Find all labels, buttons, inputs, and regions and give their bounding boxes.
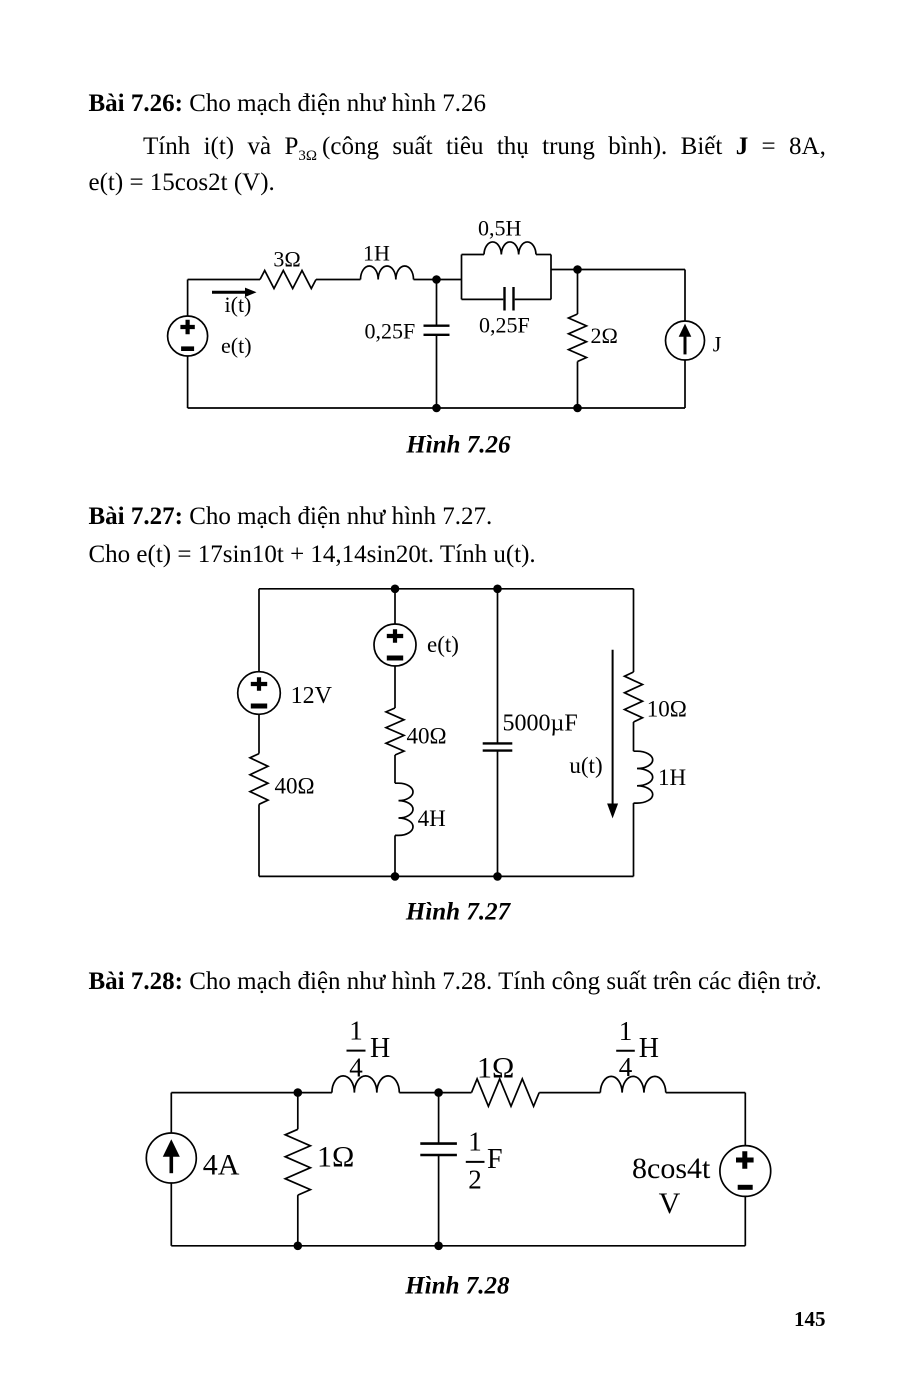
label 4A (203, 1149, 240, 1182)
wire node to e(t) source (394, 589, 396, 624)
label 1H 7.27 (658, 765, 686, 790)
label 8cos4t (632, 1152, 711, 1185)
resistor 10ohm (625, 672, 643, 722)
resistor 3ohm (260, 271, 316, 289)
svg-text:V: V (659, 1187, 681, 1220)
wire 1H to bottom right corner (633, 803, 635, 876)
label e(t) source 7.26 (221, 333, 252, 358)
wire inductor to node 2 (399, 1092, 438, 1094)
wire 2ohm resistor to bottom (577, 362, 579, 409)
resistor 40ohm middle (386, 708, 404, 755)
voltage source e(t) 7.27 (374, 624, 416, 666)
svg-text:0,25F: 0,25F (365, 319, 416, 344)
resistor 1ohm series (472, 1079, 540, 1106)
svg-text:1H: 1H (658, 765, 686, 790)
label 10 ohm (647, 697, 687, 722)
label 1 ohm series (477, 1052, 514, 1085)
wire top 7.27 (259, 588, 634, 590)
capacitor half F bottom lead (438, 1155, 440, 1246)
node 1 top 7.28 (294, 1088, 303, 1097)
resistor 2ohm (569, 314, 587, 362)
svg-text:e(t): e(t) (427, 632, 459, 657)
svg-text:1H: 1H (363, 241, 390, 266)
node bottom under 2ohm (573, 404, 582, 413)
wire left edge below 4A source (170, 1183, 172, 1246)
wire 1H inductor to node A (414, 279, 437, 281)
wire right edge below 8cos4t source (744, 1196, 746, 1245)
svg-text:0,5H: 0,5H (478, 216, 522, 241)
capacitor half F top lead (438, 1093, 440, 1144)
label 40 ohm middle (407, 723, 447, 748)
label 12V (291, 683, 333, 709)
svg-text:Hình 7.26: Hình 7.26 (405, 431, 511, 458)
svg-text:F: F (487, 1144, 503, 1175)
capacitor 0.25F bottom lead (436, 335, 438, 408)
svg-text:40Ω: 40Ω (407, 723, 447, 748)
node B junction dot (573, 265, 582, 274)
svg-text:1: 1 (349, 1016, 363, 1046)
label 0,25F box capacitor (479, 313, 530, 338)
svg-text:5000µF: 5000µF (503, 711, 578, 737)
arrow u(t) voltage reference (607, 650, 618, 819)
wire left 40ohm to bottom (258, 804, 260, 876)
label J (713, 332, 722, 357)
wire node B to resistor 2ohm (577, 270, 579, 315)
svg-text:J: J (713, 332, 722, 357)
wire bottom 7.27 (259, 875, 634, 877)
wire node A to parallel box (436, 279, 462, 281)
label e(t) 7.27 (427, 632, 459, 657)
capacitor 5000uF top lead (497, 589, 499, 744)
wire 40ohm mid to 4H inductor (394, 755, 396, 783)
node bottom under 1ohm shunt (294, 1242, 303, 1251)
wire quarter H right to top-right corner (666, 1092, 746, 1094)
current source 4A (146, 1133, 196, 1183)
svg-text:1Ω: 1Ω (477, 1052, 514, 1085)
wire right edge above 8cos4t source (744, 1093, 746, 1146)
label 40 ohm left (275, 774, 315, 799)
label 4H (418, 806, 446, 831)
label 2 ohm (591, 323, 618, 348)
inductor quarter H left (332, 1076, 399, 1093)
svg-text:H: H (639, 1033, 659, 1064)
node bottom under capacitor (432, 404, 441, 413)
svg-text:2Ω: 2Ω (591, 323, 618, 348)
node bottom under half F capacitor (434, 1242, 443, 1251)
parallel LC box bottom edge right part (515, 298, 551, 300)
voltage source 8cos4t (720, 1146, 771, 1197)
svg-text:i(t): i(t) (225, 292, 252, 317)
fraction 1/4 H label right (616, 1016, 659, 1082)
svg-text:1Ω: 1Ω (317, 1141, 354, 1174)
capacitor 0.25F plates (424, 326, 450, 335)
parallel LC box bottom edge left part (462, 298, 504, 300)
svg-text:4: 4 (619, 1052, 633, 1082)
current source J (666, 321, 705, 360)
caption Hinh 7.26 (405, 431, 511, 458)
svg-text:4A: 4A (203, 1149, 240, 1182)
svg-text:1: 1 (619, 1016, 633, 1046)
caption Hinh 7.27 (405, 899, 512, 926)
fraction 1/4 H label left (347, 1016, 391, 1083)
inductor 0,5H on box top edge (484, 242, 536, 255)
svg-text:Hình 7.27: Hình 7.27 (405, 899, 512, 926)
svg-text:2: 2 (468, 1164, 482, 1194)
label 3 ohm (273, 247, 300, 272)
resistor 1ohm shunt (285, 1093, 310, 1246)
capacitor 0.25F vertical top lead (436, 280, 438, 326)
svg-text:e(t): e(t) (221, 333, 252, 358)
wire left edge above 4A source (170, 1093, 172, 1133)
node bottom of e(t) branch (391, 872, 400, 881)
wire top-left 7.28 (source to node 1) (171, 1092, 332, 1094)
svg-text:4: 4 (349, 1053, 363, 1083)
wire right edge below source J (684, 360, 686, 408)
wire left edge above 12V source (258, 589, 260, 672)
wire box to node B and current source (551, 269, 685, 271)
svg-text:4H: 4H (418, 806, 446, 831)
inductor quarter H right (600, 1076, 665, 1092)
wire right edge above 10ohm (633, 589, 635, 672)
wire 1ohm series to quarter H right (539, 1092, 600, 1094)
parallel LC box top edge left part (462, 254, 485, 256)
wire 12V source to 40ohm resistor (258, 714, 260, 753)
wire bottom 7.26 (188, 407, 685, 409)
parallel LC box left edge (461, 255, 463, 300)
label 5000uF (503, 711, 578, 737)
capacitor 0,25F in box plates (505, 287, 514, 311)
capacitor half F plates (420, 1144, 457, 1155)
svg-text:8cos4t: 8cos4t (632, 1152, 711, 1185)
node A junction dot (432, 275, 441, 284)
svg-text:Hình 7.28: Hình 7.28 (404, 1272, 510, 1299)
voltage source 12V (238, 672, 281, 715)
wire left edge below source (187, 356, 189, 408)
voltage source e(t) (168, 316, 208, 356)
wire e(t) to 40ohm mid resistor (394, 666, 396, 708)
label V unit (659, 1187, 681, 1220)
node 2 top 7.28 (434, 1088, 443, 1097)
parallel LC box right edge (550, 255, 552, 300)
label 0,25F shunt capacitor (365, 319, 416, 344)
inductor 1H 7.27 (634, 751, 653, 803)
label i(t) (225, 292, 252, 317)
svg-text:1: 1 (468, 1126, 482, 1156)
wire bottom 7.28 (171, 1245, 745, 1247)
label 1 ohm shunt (317, 1141, 354, 1174)
label u(t) (569, 753, 602, 778)
inductor 1H (361, 266, 414, 280)
capacitor 5000uF plates (483, 743, 513, 750)
wire right edge above source J (684, 270, 686, 322)
caption Hinh 7.28 (404, 1272, 510, 1299)
svg-text:40Ω: 40Ω (275, 774, 315, 799)
resistor 40ohm left (250, 754, 268, 805)
wire 4H to bottom node (394, 835, 396, 876)
node top of e(t) branch (391, 585, 400, 594)
wire left edge above source (187, 280, 189, 317)
capacitor 5000uF bottom lead (497, 751, 499, 877)
parallel LC box top edge right part (536, 254, 551, 256)
label 1H (363, 241, 390, 266)
wire between 3ohm resistor and 1H inductor (316, 279, 361, 281)
svg-text:u(t): u(t) (569, 753, 602, 778)
label 0,5H (478, 216, 522, 241)
fraction 1/2 F label (466, 1126, 503, 1194)
svg-text:0,25F: 0,25F (479, 313, 530, 338)
node top of capacitor branch (493, 585, 502, 594)
svg-text:H: H (370, 1033, 390, 1064)
wire node 2 to 1ohm series resistor (439, 1092, 472, 1094)
svg-text:3Ω: 3Ω (273, 247, 300, 272)
wire top-left segment (source to resistor R 3ohm) (188, 279, 260, 281)
arrow current i(t) (212, 288, 257, 297)
wire 10ohm to 1H inductor (633, 722, 635, 751)
inductor 4H (395, 783, 413, 835)
svg-text:10Ω: 10Ω (647, 697, 687, 722)
svg-text:12V: 12V (291, 683, 333, 709)
node bottom of capacitor branch (493, 872, 502, 881)
